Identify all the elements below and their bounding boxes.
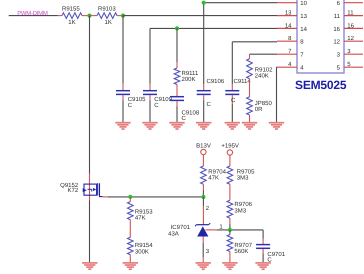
svg-text:R9103: R9103 bbox=[98, 5, 116, 12]
capacitor C9701 bbox=[262, 230, 264, 239]
ground bbox=[142, 122, 157, 124]
resistor R9102 bbox=[250, 53, 278, 55]
resistor R9103 bbox=[90, 15, 98, 17]
wire drain drop bbox=[89, 16, 91, 174]
pin 8 left stub bbox=[277, 40, 297, 42]
resistor R9705 bbox=[229, 155, 231, 166]
svg-text:1: 1 bbox=[219, 223, 223, 230]
svg-text:C9109: C9109 bbox=[154, 96, 172, 103]
resistor R9153 bbox=[129, 197, 131, 202]
svg-text:240K: 240K bbox=[255, 73, 269, 80]
svg-text:C: C bbox=[154, 102, 159, 109]
svg-text:14: 14 bbox=[300, 26, 307, 33]
resistor R9704 bbox=[202, 155, 204, 166]
resistor R9707 bbox=[229, 230, 231, 235]
svg-text:200K: 200K bbox=[182, 76, 196, 83]
ground bbox=[225, 122, 240, 124]
svg-text:R9153: R9153 bbox=[135, 208, 153, 215]
svg-text:1K: 1K bbox=[68, 19, 75, 26]
svg-text:43A: 43A bbox=[168, 230, 179, 237]
ground bbox=[123, 262, 138, 264]
svg-text:13: 13 bbox=[285, 10, 292, 17]
svg-text:47K: 47K bbox=[135, 214, 146, 221]
svg-text:12: 12 bbox=[333, 39, 340, 46]
pin 7 left stub bbox=[277, 53, 297, 55]
wire pin14 net bbox=[150, 27, 277, 29]
svg-text:IC9701: IC9701 bbox=[171, 224, 191, 231]
svg-text:K72: K72 bbox=[68, 187, 79, 194]
pin 3 right stub bbox=[344, 53, 363, 55]
ground bbox=[82, 262, 97, 264]
node G junction bbox=[228, 228, 232, 232]
ground bbox=[222, 262, 237, 264]
svg-text:10: 10 bbox=[300, 0, 307, 7]
capacitor C9109 bbox=[149, 28, 151, 83]
ground bbox=[115, 122, 130, 124]
svg-text:1K: 1K bbox=[105, 19, 112, 26]
ground bbox=[196, 262, 211, 264]
svg-text:47K: 47K bbox=[208, 175, 219, 182]
svg-text:R9154: R9154 bbox=[135, 242, 153, 249]
svg-text:2: 2 bbox=[206, 205, 210, 212]
svg-text:C9114: C9114 bbox=[234, 78, 252, 85]
svg-text:SEM5025: SEM5025 bbox=[295, 78, 347, 92]
wire source to ground bbox=[89, 201, 91, 263]
svg-text:R9704: R9704 bbox=[208, 168, 226, 175]
wire cathode bbox=[202, 197, 204, 206]
svg-text:R9705: R9705 bbox=[237, 168, 255, 175]
pin 16 right stub bbox=[344, 27, 363, 29]
capacitor C9105 bbox=[122, 16, 124, 84]
svg-text:C: C bbox=[231, 97, 236, 104]
svg-text:0R: 0R bbox=[255, 106, 263, 113]
svg-text:16: 16 bbox=[347, 22, 354, 29]
jumper JP850 bbox=[249, 79, 251, 97]
pin 5 right stub bbox=[344, 66, 363, 68]
svg-text:C: C bbox=[128, 102, 133, 109]
node D junction bbox=[202, 1, 206, 5]
pin 6 right stub bbox=[344, 2, 363, 4]
svg-text:300K: 300K bbox=[135, 248, 149, 255]
capacitor C9108 bbox=[176, 85, 178, 97]
svg-text:C: C bbox=[182, 115, 187, 122]
wire anode bbox=[202, 237, 204, 244]
capacitor C9114 bbox=[232, 41, 277, 43]
pin 13 left stub bbox=[277, 15, 297, 17]
svg-text:3: 3 bbox=[206, 248, 210, 255]
svg-text:560K: 560K bbox=[234, 248, 248, 255]
svg-text:JP850: JP850 bbox=[255, 100, 273, 107]
svg-text:B13V: B13V bbox=[196, 142, 211, 149]
wire gate net bbox=[103, 196, 108, 198]
svg-text:R9707: R9707 bbox=[234, 242, 252, 249]
svg-text:11: 11 bbox=[347, 10, 354, 17]
svg-text:C: C bbox=[207, 101, 212, 108]
svg-text:+195V: +195V bbox=[221, 142, 239, 149]
ground bbox=[196, 122, 211, 124]
pin 10 left stub bbox=[277, 2, 297, 4]
node B junction bbox=[121, 14, 125, 18]
capacitor C9106 bbox=[203, 3, 205, 84]
pin 4 left stub bbox=[277, 66, 297, 68]
op-amp U1 SEM5025 body bbox=[297, 0, 344, 73]
svg-text:14: 14 bbox=[285, 22, 292, 29]
node E junction bbox=[128, 195, 132, 199]
svg-text:C9105: C9105 bbox=[128, 96, 146, 103]
node C junction bbox=[175, 26, 179, 30]
pin 12 right stub bbox=[344, 40, 363, 42]
node A junction bbox=[87, 14, 91, 18]
node F junction bbox=[201, 195, 205, 199]
svg-text:13: 13 bbox=[300, 13, 307, 20]
wire bbox=[9, 15, 58, 17]
resistor R9111 bbox=[176, 28, 178, 62]
svg-text:16: 16 bbox=[333, 26, 340, 33]
wire to pin 13 bbox=[123, 15, 277, 17]
svg-text:R9155: R9155 bbox=[62, 5, 80, 12]
resistor R9155 bbox=[58, 15, 63, 17]
wire to pin 10 bbox=[204, 2, 277, 4]
svg-text:R9706: R9706 bbox=[234, 201, 252, 208]
ground bbox=[255, 262, 270, 264]
svg-text:12: 12 bbox=[347, 35, 354, 42]
diode IC9701 bbox=[196, 224, 208, 226]
pin 14 left stub bbox=[277, 27, 297, 29]
svg-text:3M3: 3M3 bbox=[237, 175, 249, 182]
ground bbox=[242, 122, 257, 124]
resistor R9706 bbox=[229, 184, 231, 200]
wire pin4 to ground bbox=[277, 66, 278, 68]
pin 11 right stub bbox=[344, 15, 363, 17]
svg-text:C9106: C9106 bbox=[207, 78, 225, 85]
resistor R9154 bbox=[129, 220, 131, 238]
transistor Q9152 bbox=[89, 174, 91, 201]
svg-text:R9111: R9111 bbox=[182, 70, 199, 77]
ground bbox=[269, 122, 284, 124]
svg-text:3M3: 3M3 bbox=[234, 207, 246, 214]
svg-text:R9102: R9102 bbox=[255, 67, 273, 74]
wire ref pin 1 bbox=[206, 229, 218, 231]
svg-text:11: 11 bbox=[334, 13, 341, 20]
ground bbox=[169, 122, 184, 124]
